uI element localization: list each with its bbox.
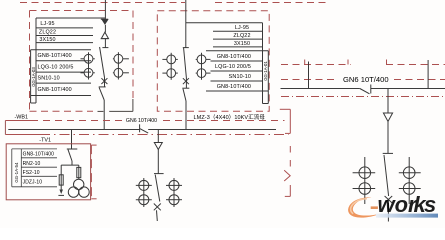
PT cabinet GG-1A-54 enclosure (solid box) — [6, 144, 90, 200]
svg-text:-WB1: -WB1 — [15, 115, 28, 121]
svg-text:JDZJ-10: JDZJ-10 — [23, 180, 43, 186]
branch tee — [61, 164, 79, 166]
room boundary red line (left) — [4, 121, 6, 135]
svg-text:GG-1A-03: GG-1A-03 — [31, 67, 36, 87]
right feeder disconnector + breaker — [383, 153, 393, 221]
label GN6 10T/400 (bus tie) — [122, 117, 161, 124]
voltage transformer JDZJ-10 (trefoil) — [68, 179, 89, 197]
svg-text:GN6 10T/400: GN6 10T/400 — [126, 118, 157, 124]
middle feeder disconnector + breaker — [154, 174, 164, 221]
middle feeder CT pair left — [136, 178, 152, 207]
cabinet 1 spec table lines — [31, 18, 106, 103]
svg-text:LQG-10 200/5: LQG-10 200/5 — [215, 64, 251, 70]
svg-text:-TV1: -TV1 — [39, 137, 51, 143]
svg-text:LMZ-3（4X40）10KV汇流母: LMZ-3（4X40）10KV汇流母 — [194, 113, 266, 121]
e-works gradient bar — [376, 214, 438, 218]
right feeder drop — [387, 89, 389, 114]
PT branch wire down from bus — [71, 130, 73, 149]
cabinet 1 disconnector + breaker SN10-10 — [99, 47, 109, 130]
cable head triangle (right feeder) — [383, 113, 392, 122]
cabinet 2 CT pair right — [196, 53, 211, 80]
svg-text:SN10-10: SN10-10 — [229, 74, 251, 80]
svg-text:GN8-10T/400: GN8-10T/400 — [217, 84, 251, 90]
svg-text:GG-1A-54: GG-1A-54 — [14, 162, 19, 183]
cabinet 2 incoming wire — [185, 0, 187, 48]
breaker cross X — [101, 78, 107, 84]
feeder drop wire (middle outgoing) — [157, 130, 159, 143]
continuation bracket left (red) — [91, 145, 96, 199]
svg-text:GN8-10T/400: GN8-10T/400 — [217, 54, 251, 60]
red dash-dot line below right bus — [281, 96, 445, 98]
cable head (filled triangle down) — [101, 18, 108, 20]
e-works watermark crescent — [348, 192, 438, 217]
breaker cross X — [183, 78, 189, 84]
cabinet 1 incoming wire — [104, 0, 106, 48]
upper-right cut-off cabinets (red dashed bottoms) — [281, 60, 445, 80]
cable head triangle (middle feeder) — [154, 143, 162, 150]
svg-text:GN8-10T/400: GN8-10T/400 — [23, 152, 55, 158]
cabinet 1 CT pair right — [113, 52, 129, 79]
cabinet 2 enclosure (dashed box) — [157, 11, 269, 111]
fuse RN2-10 — [77, 167, 81, 177]
svg-text:s: s — [424, 192, 436, 217]
upper cabinets cut-off border (top) — [20, 2, 185, 4]
right feeder CT pair right — [399, 157, 421, 204]
right busbar — [281, 88, 445, 90]
cabinet 1 enclosure (dashed box) — [30, 11, 134, 112]
continuation bracket right (red) — [280, 109, 291, 196]
svg-text:LJ-95: LJ-95 — [235, 25, 249, 31]
svg-text:ZLQ22: ZLQ22 — [233, 33, 250, 39]
middle feeder CT pair right — [166, 178, 182, 207]
e-works hyphen — [371, 206, 378, 209]
lower disconnector — [182, 87, 189, 89]
label GN6 10T/400 (right bus) — [338, 72, 394, 84]
svg-text:GN6 10T/400: GN6 10T/400 — [343, 75, 389, 84]
svg-text:GG-1A-01: GG-1A-01 — [263, 61, 268, 81]
svg-text:LJ-95: LJ-95 — [40, 21, 54, 27]
room boundary red line (top) — [5, 120, 31, 122]
svg-text:GN8-10T/400: GN8-10T/400 — [38, 87, 72, 93]
cabinet 1 CT pair left (LQG-10) — [81, 52, 95, 79]
wire from cut-off cabinet 4 — [427, 60, 429, 89]
cable head (hollow triangle up) — [101, 32, 108, 38]
cabinet 1 bottom-right dark edge — [98, 99, 133, 111]
cabinet 2 CT pair left — [162, 53, 177, 80]
svg-text:FS2-10: FS2-10 — [23, 170, 40, 176]
PT cabinet table lines — [12, 149, 57, 187]
wire from cut-off cabinet 3 — [308, 62, 310, 89]
PT cabinet labels — [23, 152, 55, 186]
PT branch disconnector — [61, 149, 79, 180]
cabinet 2 value labels — [215, 25, 251, 90]
bus-tie disconnector GN6 10T/400 — [140, 124, 149, 133]
svg-text:3X150: 3X150 — [234, 41, 250, 47]
svg-text:SN10-10: SN10-10 — [38, 76, 60, 82]
svg-text:ZLQ22: ZLQ22 — [39, 30, 56, 36]
room boundary red dash-dot line (lower) — [5, 134, 40, 136]
surge arrester FS2-10 — [59, 175, 63, 190]
cabinet 2 spec table lines (mirrored) — [186, 23, 268, 104]
svg-text:3X150: 3X150 — [39, 37, 55, 43]
svg-text:wor: wor — [378, 192, 419, 217]
right bus disconnector GN6 10T/400 — [360, 85, 371, 94]
svg-text:LQG-10 200/5: LQG-10 200/5 — [38, 64, 74, 70]
svg-text:GN8-10T/400: GN8-10T/400 — [38, 53, 72, 59]
svg-text:RN2-10: RN2-10 — [23, 161, 41, 167]
cabinet 2 disconnector + breaker — [182, 48, 189, 130]
lower disconnector — [99, 86, 106, 88]
right feeder CT pair left — [353, 157, 376, 204]
cabinet 1 value labels — [38, 21, 74, 93]
busbar -WB1 (LMZ-3 4X40) — [8, 129, 276, 131]
arrester ground — [58, 194, 64, 196]
